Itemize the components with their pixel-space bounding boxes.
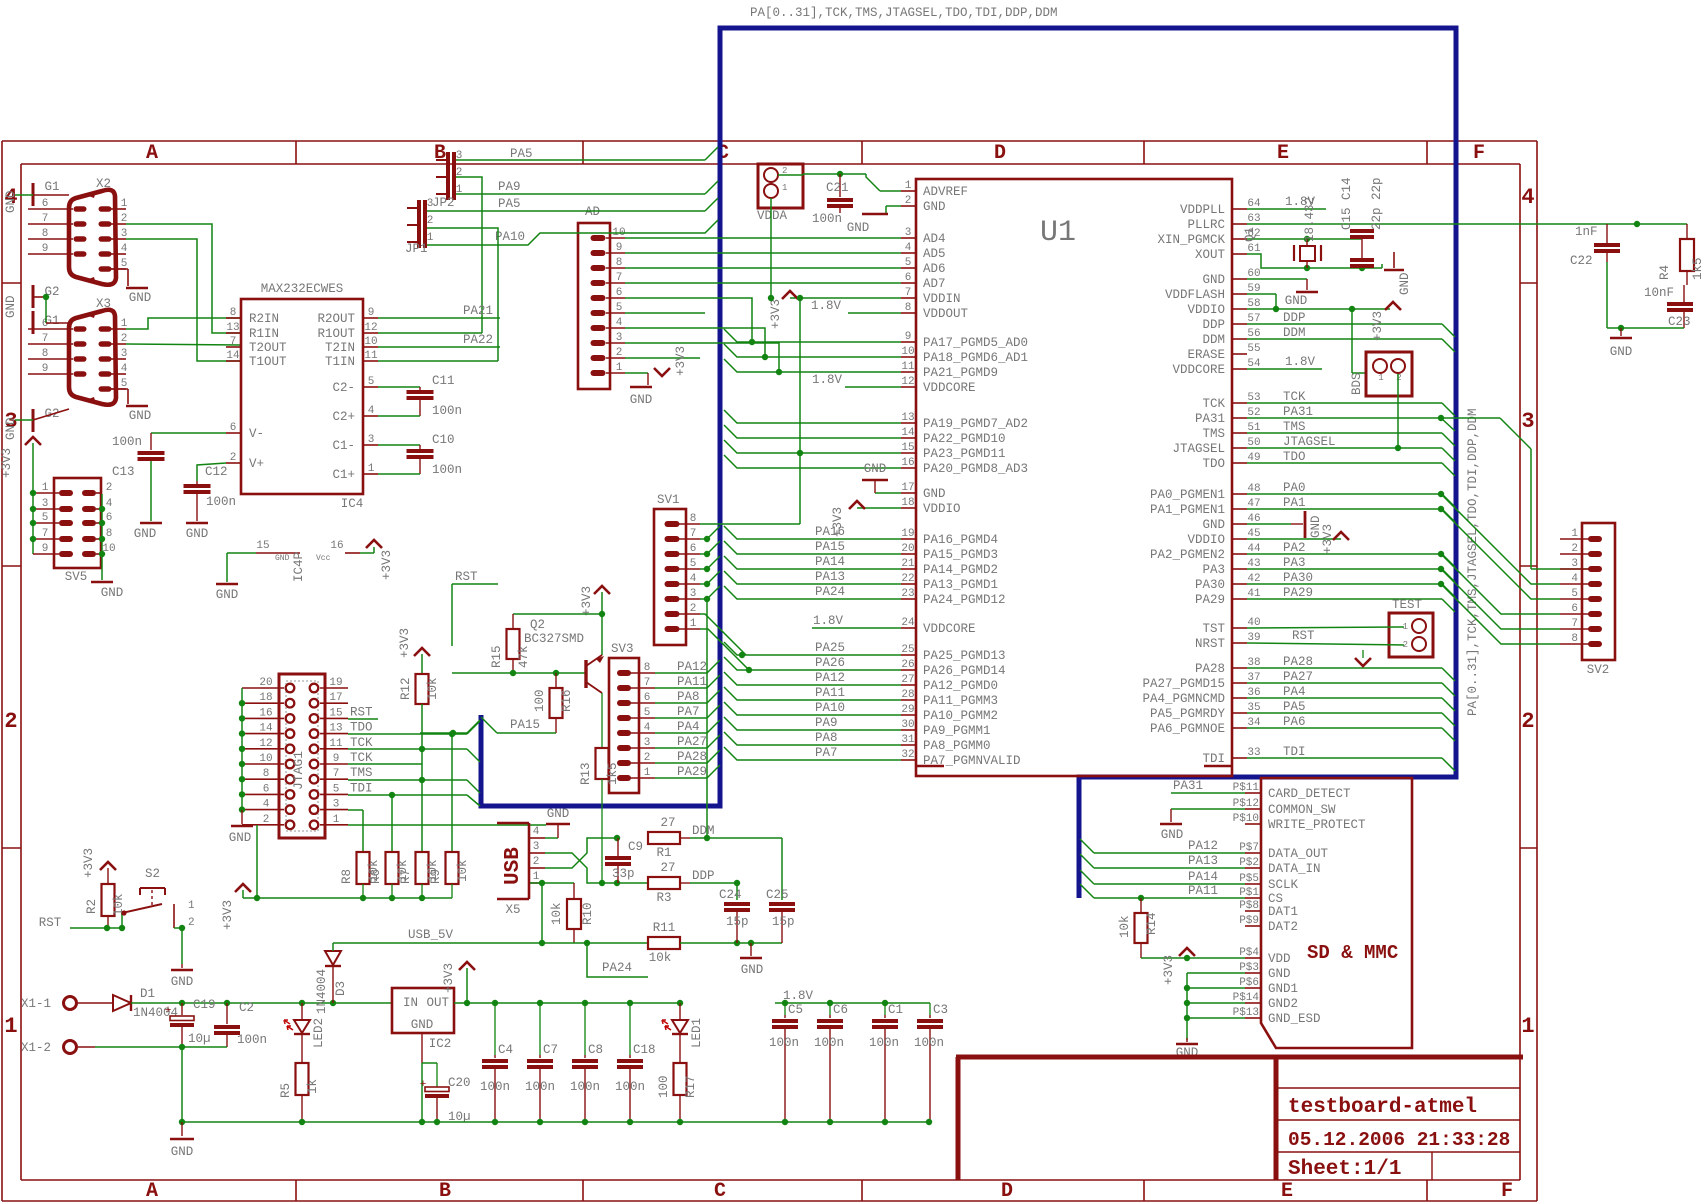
svg-text:C20: C20 [448,1076,471,1090]
svg-text:PA10: PA10 [815,701,845,715]
svg-text:2: 2 [1521,709,1534,734]
svg-text:SV1: SV1 [657,493,680,507]
svg-text:PA5: PA5 [498,197,521,211]
svg-text:9: 9 [42,543,49,555]
svg-text:29: 29 [901,704,914,716]
svg-text:F: F [1501,1180,1513,1203]
svg-text:JP2: JP2 [432,196,455,210]
svg-text:5: 5 [333,783,340,795]
svg-text:CS: CS [1268,892,1283,906]
svg-text:51: 51 [1247,422,1261,434]
svg-text:PA3: PA3 [1283,556,1306,570]
svg-text:3: 3 [333,799,340,811]
svg-text:DDP: DDP [1283,311,1306,325]
svg-text:9: 9 [616,242,623,254]
svg-text:4: 4 [121,243,128,255]
svg-text:39: 39 [1247,632,1260,644]
svg-text:100n: 100n [112,435,142,449]
svg-text:TDI: TDI [1202,752,1225,766]
svg-text:PA11: PA11 [815,686,845,700]
svg-text:PA24_PGMD12: PA24_PGMD12 [923,593,1006,607]
svg-text:GND: GND [129,409,152,423]
svg-text:100n: 100n [480,1080,510,1094]
svg-text:30: 30 [901,719,914,731]
svg-text:2: 2 [121,213,128,225]
svg-text:Sheet:1/1: Sheet:1/1 [1288,1158,1401,1181]
svg-text:PA8: PA8 [677,690,700,704]
svg-text:TDO: TDO [1202,457,1225,471]
svg-text:18: 18 [901,497,914,509]
svg-text:R2: R2 [85,899,99,914]
svg-text:3: 3 [121,228,128,240]
svg-text:18.432: 18.432 [1303,197,1317,242]
svg-text:19: 19 [329,677,342,689]
svg-text:LED2: LED2 [312,1018,326,1048]
svg-text:6: 6 [106,512,113,524]
svg-text:2: 2 [616,347,623,359]
svg-text:VDDCORE: VDDCORE [1172,363,1225,377]
svg-text:G1: G1 [44,180,59,194]
svg-text:15p: 15p [772,915,795,929]
svg-text:TCK: TCK [350,736,373,750]
svg-text:A: A [146,142,158,165]
svg-text:Vcc: Vcc [316,554,331,563]
svg-text:7: 7 [42,213,49,225]
svg-text:R2IN: R2IN [249,312,279,326]
svg-text:8: 8 [230,307,237,319]
svg-text:C1+: C1+ [332,468,355,482]
svg-text:10nF: 10nF [1644,286,1674,300]
svg-text:SV3: SV3 [611,642,634,656]
svg-text:C23: C23 [1668,315,1691,329]
svg-text:R9: R9 [429,869,443,884]
svg-text:AD7: AD7 [923,277,946,291]
svg-text:P$2: P$2 [1239,857,1259,869]
svg-text:C7: C7 [543,1043,558,1057]
svg-text:USB: USB [502,847,525,885]
svg-text:100n: 100n [570,1080,600,1094]
svg-text:P$7: P$7 [1239,842,1259,854]
svg-text:100: 100 [657,1075,671,1098]
svg-text:3: 3 [42,498,49,510]
svg-text:53: 53 [1247,392,1260,404]
svg-text:VDD: VDD [1268,952,1291,966]
svg-text:PA4_PGMNCMD: PA4_PGMNCMD [1142,692,1225,706]
svg-text:P$9: P$9 [1239,915,1259,927]
svg-text:PA6_PGMNOE: PA6_PGMNOE [1150,722,1225,736]
svg-text:3: 3 [533,841,540,853]
svg-text:1k5: 1k5 [606,762,620,785]
svg-text:60: 60 [1247,268,1260,280]
svg-text:GND1: GND1 [1268,982,1298,996]
svg-text:10k: 10k [550,902,564,925]
svg-text:C15 C14: C15 C14 [1340,177,1354,230]
svg-text:8: 8 [905,302,912,314]
svg-text:R10: R10 [581,902,595,925]
svg-text:PA2_PGMEN2: PA2_PGMEN2 [1150,548,1225,562]
svg-text:GND: GND [1202,518,1225,532]
svg-text:4: 4 [905,242,912,254]
svg-text:DDM: DDM [692,824,715,838]
svg-text:PA9_PGMM1: PA9_PGMM1 [923,724,991,738]
svg-text:1k: 1k [306,1079,320,1094]
svg-text:GND: GND [134,527,157,541]
svg-text:5: 5 [905,257,912,269]
svg-text:22p 22p: 22p 22p [1370,177,1384,230]
svg-text:44: 44 [1247,543,1261,555]
svg-text:6: 6 [616,287,623,299]
svg-text:+3V3: +3V3 [380,550,394,580]
svg-text:1.8V: 1.8V [811,299,842,313]
svg-text:6: 6 [644,692,651,704]
svg-text:RST: RST [350,705,373,719]
svg-text:3: 3 [121,348,128,360]
svg-text:15p: 15p [726,915,749,929]
svg-text:R1: R1 [656,846,671,860]
svg-text:12: 12 [259,738,272,750]
svg-text:DAT1: DAT1 [1268,905,1298,919]
svg-text:33: 33 [1247,747,1260,759]
svg-text:JTAG1: JTAG1 [291,751,306,790]
svg-text:4: 4 [106,498,113,510]
svg-text:C9: C9 [628,840,643,854]
svg-text:IC4P: IC4P [292,552,306,582]
svg-text:C24: C24 [719,888,742,902]
svg-text:1: 1 [644,767,651,779]
svg-text:+3V3: +3V3 [221,900,235,930]
svg-text:R11: R11 [653,921,676,935]
svg-text:P$3: P$3 [1239,962,1259,974]
svg-text:TST: TST [1202,622,1225,636]
svg-text:+: + [165,1005,172,1017]
svg-text:3: 3 [1571,558,1578,570]
svg-text:PA11_PGMM3: PA11_PGMM3 [923,694,998,708]
svg-text:7: 7 [42,333,49,345]
svg-text:testboard-atmel: testboard-atmel [1288,1096,1477,1119]
svg-text:T2IN: T2IN [325,341,355,355]
svg-text:OUT: OUT [426,996,449,1010]
svg-text:+3V3: +3V3 [580,586,594,616]
svg-text:P$14: P$14 [1233,992,1260,1004]
svg-text:NRST: NRST [1195,637,1226,651]
svg-text:P$10: P$10 [1233,813,1259,825]
svg-text:X2: X2 [96,177,111,191]
svg-text:DATA_IN: DATA_IN [1268,862,1321,876]
svg-text:X1-2: X1-2 [21,1041,51,1055]
svg-text:GND: GND [4,190,18,213]
svg-text:GND: GND [171,1145,194,1159]
svg-text:5: 5 [1571,588,1578,600]
svg-text:5: 5 [690,558,697,570]
svg-text:JTAGSEL: JTAGSEL [1172,442,1225,456]
svg-text:5: 5 [42,512,49,524]
svg-text:9: 9 [368,307,375,319]
svg-text:PA21_PGMD9: PA21_PGMD9 [923,366,998,380]
svg-text:P$4: P$4 [1239,947,1259,959]
svg-text:C1-: C1- [332,439,355,453]
svg-text:R7: R7 [399,869,413,884]
svg-text:PA23_PGMD11: PA23_PGMD11 [923,447,1006,461]
svg-text:GND: GND [1268,967,1291,981]
svg-text:GND: GND [101,586,124,600]
svg-text:PA13: PA13 [1188,854,1218,868]
svg-text:35: 35 [1247,702,1260,714]
svg-text:VDDPLL: VDDPLL [1180,203,1225,217]
svg-text:4: 4 [368,405,375,417]
svg-text:GND: GND [1398,272,1412,295]
svg-text:C10: C10 [432,433,455,447]
svg-text:7: 7 [690,528,697,540]
svg-text:DDM: DDM [1283,326,1306,340]
svg-text:BDS: BDS [1350,372,1364,395]
svg-text:GND: GND [547,807,570,821]
svg-text:DDP: DDP [692,869,715,883]
svg-text:PA26: PA26 [815,656,845,670]
svg-text:C4: C4 [498,1043,513,1057]
svg-text:1nF: 1nF [1575,225,1598,239]
svg-text:JP1: JP1 [405,242,428,256]
svg-text:PA29: PA29 [677,765,707,779]
svg-text:1: 1 [533,871,540,883]
svg-text:17: 17 [329,692,342,704]
svg-text:22: 22 [901,573,914,585]
svg-text:26: 26 [901,659,914,671]
svg-text:7: 7 [1571,618,1578,630]
svg-text:1: 1 [4,1014,17,1039]
svg-text:2: 2 [4,709,17,734]
svg-text:28: 28 [901,689,914,701]
svg-text:PA13: PA13 [815,570,845,584]
svg-text:R14: R14 [1145,912,1159,935]
svg-text:PA9: PA9 [815,716,838,730]
svg-text:34: 34 [1247,717,1261,729]
svg-text:1: 1 [1571,528,1578,540]
svg-text:TCK: TCK [350,751,373,765]
svg-text:PA24: PA24 [602,961,632,975]
svg-text:9: 9 [42,363,49,375]
svg-text:BC327SMD: BC327SMD [524,632,584,646]
svg-text:GND: GND [847,221,870,235]
svg-text:50: 50 [1247,437,1260,449]
svg-text:GND: GND [630,393,653,407]
svg-text:PA16: PA16 [815,525,845,539]
svg-text:PA29: PA29 [1283,586,1313,600]
svg-text:P$12: P$12 [1233,798,1259,810]
svg-text:C12: C12 [205,465,228,479]
svg-text:10k: 10k [456,859,470,882]
svg-text:R3: R3 [656,891,671,905]
svg-text:PA11: PA11 [677,675,707,689]
svg-text:7: 7 [333,768,340,780]
svg-text:100n: 100n [769,1036,799,1050]
svg-text:10k: 10k [426,677,440,700]
svg-text:27: 27 [660,861,675,875]
svg-text:C13: C13 [112,465,135,479]
svg-text:PA18_PGMD6_AD1: PA18_PGMD6_AD1 [923,351,1028,365]
svg-text:GND: GND [923,487,946,501]
svg-text:PA26_PGMD14: PA26_PGMD14 [923,664,1006,678]
svg-text:6: 6 [1571,603,1578,615]
svg-text:+3V3: +3V3 [769,299,783,329]
svg-text:1: 1 [782,183,787,193]
svg-text:100n: 100n [432,404,462,418]
svg-text:49: 49 [1247,452,1260,464]
svg-text:20: 20 [901,543,914,555]
svg-text:3: 3 [690,588,697,600]
svg-text:PA5_PGMRDY: PA5_PGMRDY [1150,707,1226,721]
svg-text:GND: GND [129,291,152,305]
svg-text:VDDFLASH: VDDFLASH [1165,288,1225,302]
svg-text:TMS: TMS [1202,427,1225,441]
svg-text:VDDIO: VDDIO [1187,303,1225,317]
svg-text:R8: R8 [340,869,354,884]
svg-text:1: 1 [188,900,195,912]
svg-text:38: 38 [1247,657,1260,669]
svg-text:05.12.2006 21:33:28: 05.12.2006 21:33:28 [1288,1129,1510,1151]
svg-text:7: 7 [42,528,49,540]
svg-text:D3: D3 [334,981,348,996]
svg-text:PA17_PGMD5_AD0: PA17_PGMD5_AD0 [923,336,1028,350]
svg-text:RST: RST [39,916,62,930]
svg-text:C21: C21 [826,181,849,195]
svg-text:14: 14 [259,723,273,735]
svg-text:X5: X5 [505,903,520,917]
svg-text:5: 5 [368,376,375,388]
svg-text:7: 7 [905,287,912,299]
svg-text:COMMON_SW: COMMON_SW [1268,803,1336,817]
svg-text:R6: R6 [369,869,383,884]
svg-text:PA2: PA2 [1283,541,1306,555]
svg-text:12: 12 [901,376,914,388]
svg-text:V+: V+ [249,457,264,471]
svg-text:33p: 33p [612,867,635,881]
svg-text:PA24: PA24 [815,585,845,599]
svg-text:8: 8 [42,228,49,240]
svg-text:4: 4 [121,363,128,375]
svg-text:45: 45 [1247,528,1260,540]
svg-text:TMS: TMS [350,766,373,780]
svg-text:VDDCORE: VDDCORE [923,622,976,636]
svg-text:C1: C1 [888,1003,903,1017]
svg-text:PA30: PA30 [1195,578,1225,592]
svg-text:MAX232ECWES: MAX232ECWES [261,282,344,296]
svg-text:5: 5 [644,707,651,719]
svg-text:GND2: GND2 [1268,997,1298,1011]
svg-text:100n: 100n [869,1036,899,1050]
svg-text:6: 6 [42,198,49,210]
svg-text:4: 4 [263,799,270,811]
svg-text:1: 1 [42,482,49,494]
svg-text:F: F [1473,142,1485,165]
svg-text:13: 13 [329,723,342,735]
svg-text:VDDCORE: VDDCORE [923,381,976,395]
svg-text:1: 1 [427,232,434,244]
svg-text:X3: X3 [96,297,111,311]
svg-text:TDI: TDI [1283,745,1306,759]
svg-text:VDDIO: VDDIO [923,502,961,516]
svg-text:1: 1 [368,463,375,475]
svg-text:10µ: 10µ [188,1032,211,1046]
svg-text:PA29: PA29 [1195,593,1225,607]
svg-text:63: 63 [1247,213,1260,225]
svg-text:19: 19 [901,528,914,540]
svg-text:2: 2 [690,603,697,615]
svg-text:25: 25 [901,644,914,656]
svg-text:R16: R16 [560,689,574,712]
svg-text:9: 9 [42,243,49,255]
svg-text:4: 4 [1571,573,1578,585]
svg-text:14: 14 [901,427,915,439]
svg-text:100n: 100n [206,495,236,509]
svg-text:PA14: PA14 [1188,870,1218,884]
svg-text:TMS: TMS [1283,420,1306,434]
svg-text:8: 8 [1571,633,1578,645]
svg-text:C: C [714,1180,726,1203]
svg-text:PA10: PA10 [495,230,525,244]
svg-text:8: 8 [690,513,697,525]
svg-text:+3V3: +3V3 [82,848,96,878]
svg-text:P$1: P$1 [1239,887,1259,899]
svg-text:8: 8 [42,348,49,360]
svg-text:R1IN: R1IN [249,327,279,341]
svg-text:PA22_PGMD10: PA22_PGMD10 [923,432,1006,446]
svg-text:GND: GND [275,554,290,563]
svg-text:R1OUT: R1OUT [317,327,355,341]
svg-text:+: + [420,1079,427,1091]
svg-text:58: 58 [1247,298,1260,310]
svg-text:48: 48 [1247,483,1260,495]
svg-text:4: 4 [644,722,651,734]
svg-text:VDDIN: VDDIN [923,292,961,306]
svg-text:3: 3 [905,227,912,239]
svg-text:PA22: PA22 [463,333,493,347]
svg-text:PA20_PGMD8_AD3: PA20_PGMD8_AD3 [923,462,1028,476]
svg-text:Q2: Q2 [530,618,545,632]
svg-text:T1IN: T1IN [325,355,355,369]
svg-text:+3V3: +3V3 [442,963,456,993]
svg-text:P$6: P$6 [1239,977,1259,989]
svg-text:AD5: AD5 [923,247,946,261]
svg-text:1: 1 [121,318,128,330]
svg-text:E: E [1281,1180,1293,1203]
svg-text:PA12: PA12 [677,660,707,674]
svg-text:17: 17 [901,482,914,494]
svg-text:2: 2 [188,917,195,929]
svg-text:XOUT: XOUT [1195,248,1226,262]
svg-text:A: A [146,1180,158,1203]
svg-text:B: B [434,142,446,165]
svg-text:PA28: PA28 [1283,655,1313,669]
svg-text:PA5: PA5 [510,147,533,161]
svg-text:3: 3 [616,332,623,344]
svg-text:R13: R13 [579,762,593,785]
svg-text:GND: GND [229,831,252,845]
svg-text:2: 2 [905,195,912,207]
svg-text:PA25: PA25 [815,641,845,655]
svg-text:11: 11 [329,738,343,750]
svg-text:1.8V: 1.8V [812,373,843,387]
svg-text:PLLRC: PLLRC [1187,218,1225,232]
svg-text:1k5: 1k5 [1691,257,1705,280]
svg-text:PA5: PA5 [1283,700,1306,714]
svg-text:47k: 47k [517,645,531,668]
svg-text:2: 2 [263,814,270,826]
svg-text:C2-: C2- [332,381,355,395]
svg-text:4: 4 [1521,185,1534,210]
svg-text:6: 6 [230,422,237,434]
svg-text:GND_ESD: GND_ESD [1268,1012,1321,1026]
svg-text:3: 3 [427,198,434,210]
